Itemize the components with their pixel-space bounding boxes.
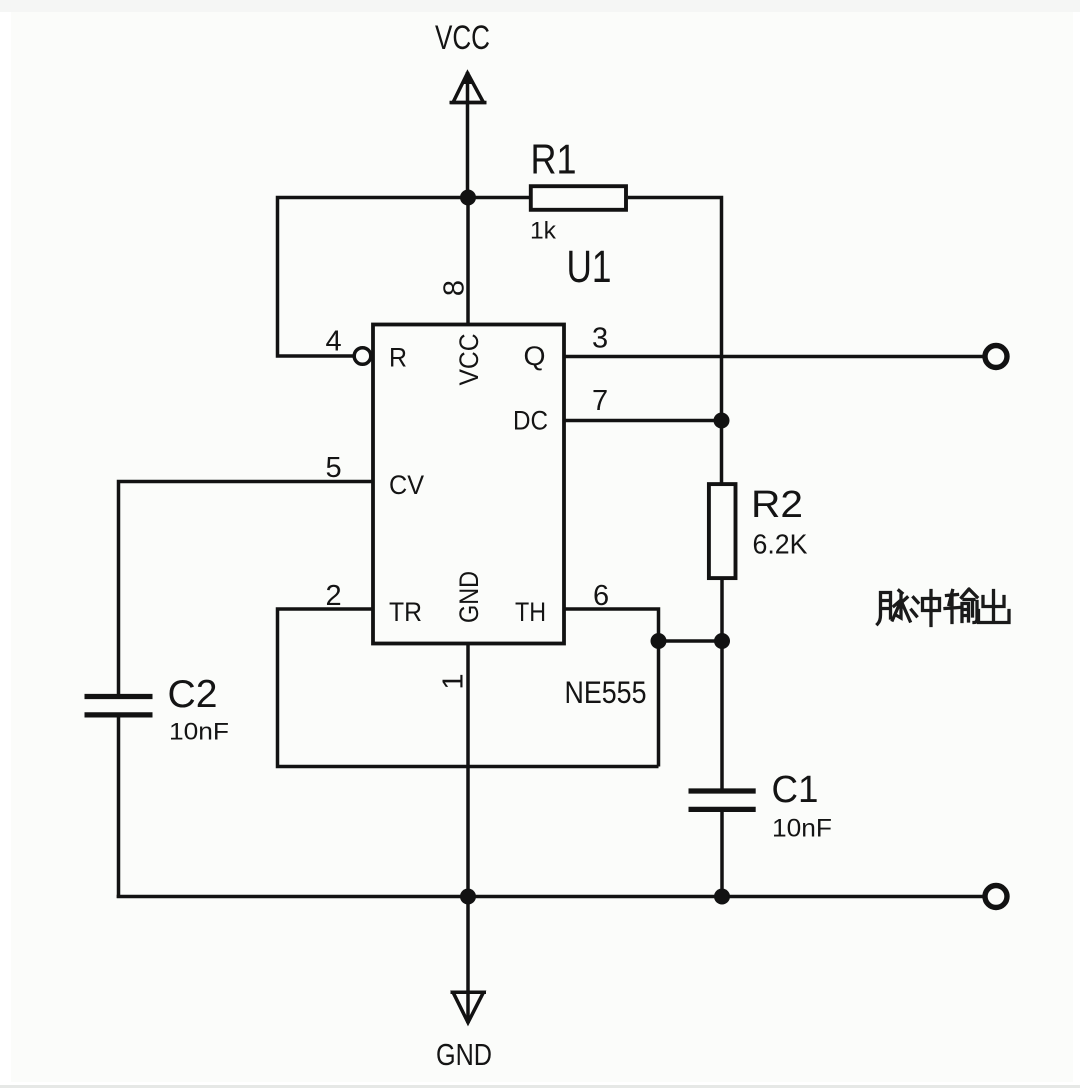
svg-text:10nF: 10nF: [169, 719, 229, 746]
wire R1 to corner and down to DC: [628, 198, 722, 485]
svg-text:CV: CV: [389, 470, 424, 500]
label 脉冲输出 (pulse output) hand-drawn glyphs: [878, 590, 1010, 626]
svg-text:U1: U1: [567, 241, 612, 292]
svg-text:R1: R1: [531, 136, 577, 183]
wire TH link: [564, 609, 659, 767]
wire top rail left: [278, 198, 532, 357]
junction pin8/rail: [460, 190, 476, 206]
svg-text:1: 1: [438, 673, 470, 689]
svg-text:VCC: VCC: [454, 334, 484, 386]
resistor R1: [531, 186, 626, 210]
wire TR loop: [278, 609, 659, 767]
svg-text:R2: R2: [751, 484, 803, 526]
svg-text:5: 5: [326, 452, 342, 484]
junction DC/R2: [714, 413, 730, 429]
svg-text:TR: TR: [389, 597, 422, 627]
wire TH to R2 node: [659, 639, 723, 643]
svg-text:C1: C1: [772, 769, 819, 811]
svg-text:1k: 1k: [530, 218, 557, 245]
wire Q output: [564, 355, 983, 359]
svg-text:Q: Q: [524, 341, 546, 371]
svg-text:4: 4: [326, 326, 342, 358]
wire CV branch: [119, 482, 374, 695]
svg-text:10nF: 10nF: [772, 815, 832, 843]
wire VCC stem: [466, 72, 470, 198]
char 出: [979, 591, 1010, 623]
char 冲: [912, 591, 940, 626]
capacitor C2: [85, 697, 153, 715]
svg-text:VCC: VCC: [435, 19, 490, 57]
char 脉: [878, 591, 911, 625]
svg-text:NE555: NE555: [565, 674, 647, 710]
svg-text:6.2K: 6.2K: [753, 529, 808, 560]
svg-text:2: 2: [326, 580, 342, 612]
wire GND stem: [466, 644, 470, 1024]
pin 4 inverter bubble: [354, 348, 371, 365]
svg-text:7: 7: [592, 385, 608, 417]
wire R2 bottom to C1: [720, 578, 724, 789]
IC U1 NE555 box: [373, 325, 564, 644]
svg-text:3: 3: [592, 323, 608, 355]
svg-text:6: 6: [593, 580, 609, 612]
svg-text:R: R: [389, 343, 407, 373]
svg-text:8: 8: [439, 280, 471, 296]
ground arrow: [453, 992, 484, 1022]
svg-text:GND: GND: [436, 1037, 492, 1072]
resistor R2: [709, 484, 736, 578]
junction GND/rail: [460, 889, 476, 905]
char 输: [945, 590, 977, 623]
junction R2/C1 node: [714, 633, 730, 649]
wire bottom rail: [117, 895, 983, 899]
wire pin8 stem: [466, 198, 470, 325]
svg-text:C2: C2: [168, 673, 218, 716]
wire DC: [564, 419, 722, 423]
terminal output gnd: [985, 886, 1007, 908]
capacitor C1: [689, 791, 756, 809]
VCC arrow: [453, 73, 484, 103]
svg-text:TH: TH: [515, 597, 546, 627]
wire C2 bottom lead: [117, 717, 121, 898]
junction TH node: [651, 633, 667, 649]
svg-text:GND: GND: [454, 571, 484, 623]
terminal output Q: [985, 346, 1007, 368]
wire C1 bottom lead: [720, 812, 724, 897]
svg-text:DC: DC: [513, 406, 548, 436]
junction C1/rail: [714, 889, 730, 905]
